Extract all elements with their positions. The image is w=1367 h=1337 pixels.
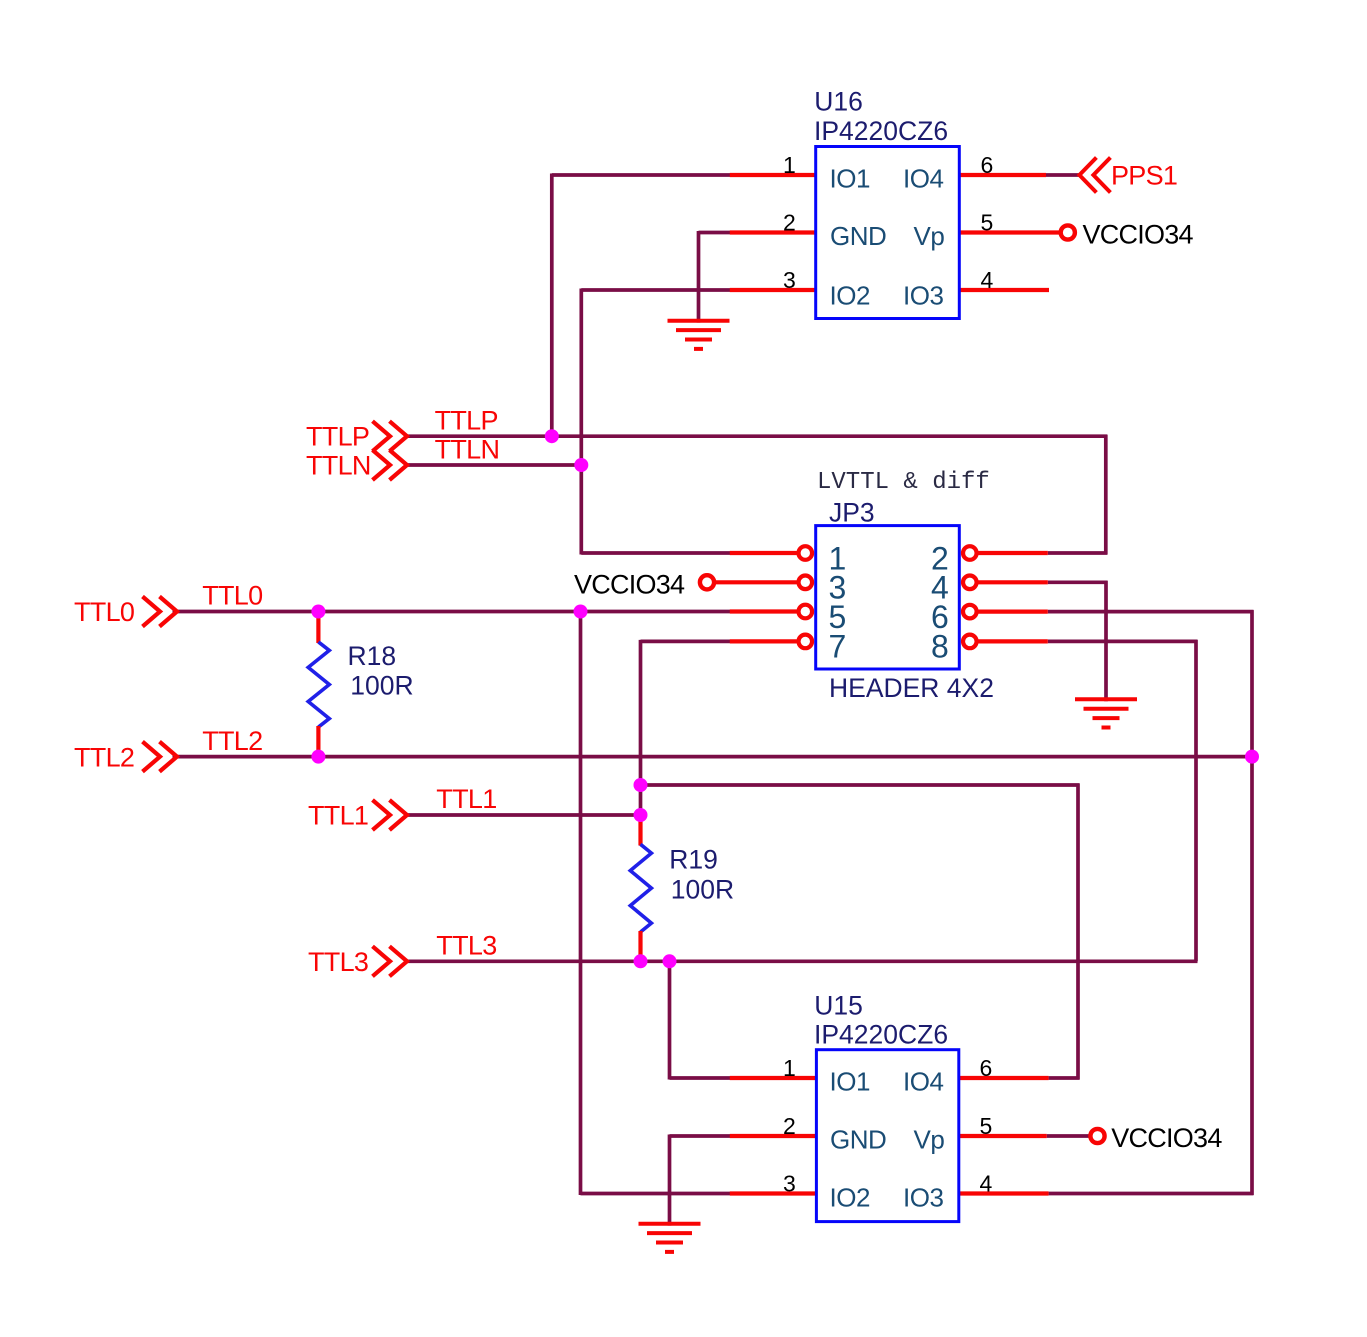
U16 pin name IO4 — [903, 164, 943, 194]
svg-text:VCCIO34: VCCIO34 — [574, 569, 685, 599]
port label TTL1 — [308, 801, 368, 831]
svg-text:IO3: IO3 — [903, 1182, 943, 1212]
U16 pin number 1 — [783, 152, 796, 178]
resistor R19 reference — [669, 845, 718, 875]
U15 pin name IO3 — [903, 1182, 943, 1212]
junction dot TTL3 R19 — [634, 954, 648, 968]
U15 pin name GND — [830, 1124, 886, 1154]
svg-text:3: 3 — [783, 1170, 796, 1196]
svg-text:PPS1: PPS1 — [1111, 160, 1177, 190]
wire JP3 pin7 horizontal — [641, 640, 732, 644]
pin 7 stub JP3 — [730, 639, 797, 643]
U16 pin number 4 — [981, 267, 994, 293]
U15 VCCIO34 net label — [1111, 1123, 1222, 1153]
U15 pin number 5 — [980, 1113, 993, 1139]
JP3 reference label — [829, 498, 875, 528]
op-amp U16 reference label — [814, 87, 863, 117]
svg-text:IP4220CZ6: IP4220CZ6 — [814, 1019, 948, 1049]
pin 2 stub JP3 — [977, 551, 1048, 555]
JP3 pin circle 1 — [799, 546, 813, 560]
resistor R18 body — [308, 642, 329, 727]
svg-text:Vp: Vp — [914, 221, 945, 251]
JP3 header note LVTTL & diff — [817, 469, 990, 496]
JP3 pin number 4 — [931, 570, 949, 606]
U15 pin name Vp — [914, 1125, 945, 1155]
pin 6 stub U16 — [960, 173, 1046, 177]
junction dot branch U15 pin6 — [634, 778, 648, 792]
U16 pin number 6 — [981, 152, 994, 178]
wire TTLP vertical down to JP3 pin2 — [1104, 435, 1108, 555]
resistor R18 reference — [348, 641, 397, 671]
svg-text:GND: GND — [830, 1124, 886, 1154]
svg-text:TTL2: TTL2 — [202, 726, 262, 756]
pin 5 stub JP3 — [730, 609, 797, 613]
U16 pin name IO1 — [830, 164, 870, 194]
JP3 pin number 8 — [931, 628, 949, 664]
PPS1 port label — [1111, 160, 1177, 190]
svg-text:JP3: JP3 — [829, 498, 875, 528]
wire JP3 pin6 vertical down through TTL2 to U15 pin4 — [1250, 610, 1254, 1195]
wire TTL1 horizontal — [407, 813, 643, 817]
svg-text:TTLN: TTLN — [306, 451, 371, 481]
JP3 pin circle 4 — [963, 576, 977, 590]
IC JP3 box — [816, 526, 960, 669]
port label TTLP — [306, 422, 369, 452]
U16 pin number 2 — [783, 209, 796, 235]
junction dot TTL1 R19 — [634, 808, 648, 822]
wire U16 pin3 horizontal — [581, 288, 731, 292]
pin 4 stub JP3 — [977, 580, 1048, 584]
VCC circle U16 pin5 — [1061, 225, 1075, 239]
svg-text:2: 2 — [783, 1113, 796, 1139]
svg-text:U15: U15 — [814, 991, 863, 1021]
wire U15 pin5 to VCCIO34 — [1047, 1134, 1091, 1138]
svg-text:IO2: IO2 — [830, 280, 870, 310]
junction dot TTL3 U15 pin1 — [663, 954, 677, 968]
wire U15 pin2 GND vertical — [668, 1135, 672, 1226]
svg-text:Vp: Vp — [914, 1125, 945, 1155]
wire U16 pin1 horizontal — [552, 173, 731, 177]
net label TTL3 — [436, 931, 496, 961]
svg-text:TTLN: TTLN — [435, 434, 500, 464]
VCC circle U15 pin5 — [1090, 1129, 1104, 1143]
pin 3 stub U16 — [730, 288, 815, 292]
wire U15 pin1 horizontal — [670, 1076, 732, 1080]
JP3 pin circle 3 — [799, 576, 813, 590]
port chevron PPS1 — [1079, 158, 1110, 193]
svg-text:IP4220CZ6: IP4220CZ6 — [814, 116, 948, 146]
pin 6 stub U15 — [960, 1076, 1049, 1080]
junction dot TTL0 vertical — [574, 605, 588, 619]
U16 pin number 5 — [981, 209, 994, 235]
wire U15 pin2 GND horizontal — [670, 1134, 732, 1138]
wire U15 pin4 horizontal — [1049, 1192, 1254, 1196]
U15 pin number 6 — [980, 1055, 993, 1081]
IC U16 box — [816, 147, 960, 319]
resistor R19 top lead — [638, 815, 642, 846]
U16 pin name IO3 — [903, 280, 943, 310]
wire JP3 pin1 horizontal — [581, 551, 731, 555]
wire U16 pin3 vertical down through TTLN to JP3 pin1 — [579, 289, 583, 555]
svg-text:100R: 100R — [671, 875, 734, 905]
wire TTLN horizontal — [407, 463, 583, 467]
JP3 VCCIO34 net label — [574, 569, 685, 599]
wire TTLP horizontal — [407, 434, 1108, 438]
VCC circle JP3 pin3 — [700, 575, 714, 589]
U16 pin number 3 — [783, 267, 796, 293]
wire JP3 pin4 horizontal — [1048, 580, 1108, 584]
resistor R19 body — [630, 844, 651, 932]
U15 pin number 1 — [783, 1055, 796, 1081]
JP3 pin circle 5 — [799, 605, 813, 619]
svg-text:R18: R18 — [348, 641, 397, 671]
wire branch to U15 pin6 horizontal — [639, 783, 1080, 787]
svg-text:1: 1 — [783, 152, 796, 178]
pin 8 stub JP3 — [977, 639, 1048, 643]
U15 value label IP4220CZ6 — [814, 1019, 948, 1049]
svg-text:HEADER 4X2: HEADER 4X2 — [829, 673, 994, 703]
wire U16 pin1 vertical down to TTLP — [550, 174, 554, 437]
svg-text:3: 3 — [783, 267, 796, 293]
net label TTLN — [435, 434, 500, 464]
JP3 pin number 6 — [931, 599, 949, 635]
U16 pin name Vp — [914, 221, 945, 251]
port label TTLN — [306, 451, 371, 481]
junction dot TTL2 right — [1245, 750, 1259, 764]
svg-text:TTL2: TTL2 — [74, 742, 134, 772]
wire TTL3 horizontal — [407, 959, 1198, 963]
port chevron TTLN — [373, 450, 408, 480]
U15 pin number 2 — [783, 1113, 796, 1139]
wire U16 pin2 GND vertical — [697, 231, 701, 323]
svg-text:IO3: IO3 — [903, 280, 943, 310]
svg-text:4: 4 — [981, 267, 994, 293]
svg-text:4: 4 — [980, 1170, 993, 1196]
port chevron TTLP — [373, 421, 408, 451]
port chevron TTL1 — [373, 800, 408, 830]
wire TTL2 horizontal — [173, 755, 1253, 759]
port label TTL0 — [74, 597, 134, 627]
svg-text:TTL0: TTL0 — [74, 597, 134, 627]
pin 3 stub U15 — [730, 1191, 816, 1195]
pin 5 stub U15 — [960, 1134, 1047, 1138]
net label TTLP — [435, 406, 498, 436]
svg-text:VCCIO34: VCCIO34 — [1083, 220, 1194, 250]
svg-text:VCCIO34: VCCIO34 — [1111, 1123, 1222, 1153]
U15 pin number 3 — [783, 1170, 796, 1196]
resistor R18 top lead — [316, 612, 320, 644]
wire U16 pin2 GND horizontal — [699, 231, 732, 235]
svg-text:IO4: IO4 — [903, 1067, 943, 1097]
svg-text:100R: 100R — [350, 670, 413, 700]
port label TTL3 — [308, 947, 368, 977]
pin 1 stub U16 — [730, 173, 815, 177]
svg-text:2: 2 — [783, 209, 796, 235]
JP3 pin number 7 — [829, 628, 847, 664]
wire JP3 pin7 vertical down to TTL1 / R19 — [639, 640, 643, 815]
net label TTL2 — [202, 726, 262, 756]
svg-text:TTLP: TTLP — [435, 406, 498, 436]
wire U16 pin6 to PPS1 port — [1046, 173, 1080, 177]
U15 pin name IO2 — [830, 1182, 870, 1212]
resistor R18 bottom lead — [316, 726, 320, 757]
svg-text:8: 8 — [931, 628, 949, 664]
svg-text:1: 1 — [783, 1055, 796, 1081]
JP3 value label HEADER 4X2 — [829, 673, 994, 703]
JP3 pin number 5 — [829, 599, 847, 635]
pin 1 stub U15 — [730, 1076, 816, 1080]
ground at U16 GND — [668, 321, 730, 349]
resistor R19 value 100R — [671, 875, 734, 905]
IC U15 box — [816, 1050, 958, 1222]
svg-text:IO4: IO4 — [903, 164, 943, 194]
net label TTL1 — [436, 784, 496, 814]
svg-text:IO1: IO1 — [830, 164, 870, 194]
JP3 pin circle 7 — [799, 635, 813, 649]
port label TTL2 — [74, 742, 134, 772]
JP3 pin number 1 — [829, 540, 847, 576]
svg-text:LVTTL & diff: LVTTL & diff — [817, 469, 990, 496]
ground at JP3 pin4 — [1075, 699, 1137, 727]
svg-text:7: 7 — [829, 628, 847, 664]
JP3 pin circle 6 — [963, 605, 977, 619]
port chevron TTL0 — [143, 597, 178, 627]
wire JP3 pin2 horizontal — [1048, 551, 1108, 555]
junction dot TTL2 R18 — [311, 750, 325, 764]
pin 3 stub JP3 from VCC circle — [715, 580, 797, 584]
net label TTL0 — [202, 581, 262, 611]
svg-text:6: 6 — [980, 1055, 993, 1081]
pin 2 stub U16 — [730, 230, 815, 234]
svg-text:GND: GND — [830, 221, 886, 251]
JP3 pin circle 2 — [963, 546, 977, 560]
wire U15 pin3 horizontal — [581, 1192, 732, 1196]
JP3 pin circle 8 — [963, 635, 977, 649]
junction dot TTLN — [574, 458, 588, 472]
wire TTL0 vertical down to U15 pin3 — [579, 612, 583, 1196]
svg-text:TTL0: TTL0 — [202, 581, 262, 611]
svg-text:TTL1: TTL1 — [436, 784, 496, 814]
wire TTL0 horizontal — [173, 610, 732, 614]
svg-text:TTL3: TTL3 — [436, 931, 496, 961]
U15 pin name IO1 — [830, 1067, 870, 1097]
port chevron TTL2 — [143, 742, 178, 772]
resistor R18 value 100R — [350, 670, 413, 700]
svg-text:R19: R19 — [669, 845, 718, 875]
JP3 pin number 2 — [931, 540, 949, 576]
wire JP3 pin8 horizontal — [1048, 640, 1198, 644]
pin 4 stub U15 — [960, 1191, 1049, 1195]
svg-text:6: 6 — [981, 152, 994, 178]
pin 2 stub U15 — [730, 1134, 816, 1138]
pin 6 stub JP3 — [977, 609, 1048, 613]
wire JP3 pin8 vertical down to TTL3 — [1194, 640, 1198, 961]
port chevron TTL3 — [373, 946, 408, 976]
wire U15 pin6 horizontal — [1049, 1076, 1080, 1080]
svg-text:TTL1: TTL1 — [308, 801, 368, 831]
wire JP3 pin4 vertical to ground — [1104, 581, 1108, 701]
U15 pin name IO4 — [903, 1067, 943, 1097]
junction dot TTLP — [545, 429, 559, 443]
junction dot TTL0 R18 — [311, 605, 325, 619]
svg-text:TTL3: TTL3 — [308, 947, 368, 977]
U16 value label IP4220CZ6 — [814, 116, 948, 146]
pin 1 stub JP3 — [730, 551, 797, 555]
wire JP3 pin6 horizontal — [1048, 610, 1254, 614]
wire branch to U15 pin6 vertical — [1076, 784, 1080, 1080]
ground at U15 GND — [639, 1224, 701, 1252]
svg-text:IO2: IO2 — [830, 1182, 870, 1212]
resistor R19 bottom lead — [638, 931, 642, 961]
U16 VCCIO34 net label — [1083, 220, 1194, 250]
U16 pin name GND — [830, 221, 886, 251]
U15 pin number 4 — [980, 1170, 993, 1196]
svg-text:U16: U16 — [814, 87, 863, 117]
U15 reference label — [814, 991, 863, 1021]
svg-text:TTLP: TTLP — [306, 422, 369, 452]
wire TTL3 vertical to U15 pin1 — [668, 960, 672, 1080]
pin 4 stub U16 — [960, 288, 1049, 292]
JP3 pin number 3 — [829, 570, 847, 606]
U16 pin name IO2 — [830, 280, 870, 310]
svg-text:5: 5 — [981, 209, 994, 235]
svg-text:5: 5 — [980, 1113, 993, 1139]
svg-text:IO1: IO1 — [830, 1067, 870, 1097]
pin 5 stub U16 to VCC circle — [960, 230, 1060, 234]
